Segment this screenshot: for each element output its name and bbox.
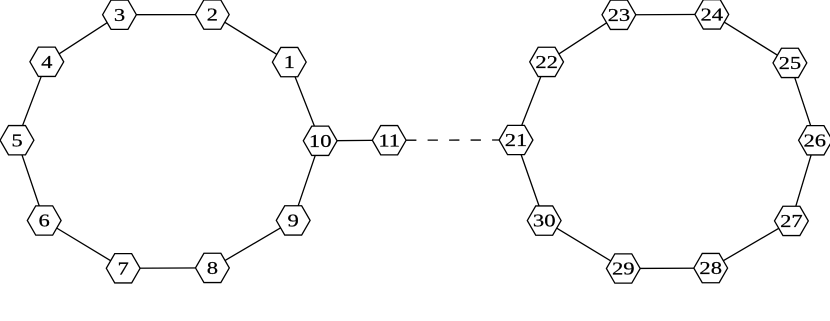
svg-text:27: 27 bbox=[780, 212, 803, 231]
svg-text:22: 22 bbox=[535, 53, 558, 72]
svg-text:8: 8 bbox=[207, 259, 218, 278]
wire: edge 29-30 bbox=[544, 221, 623, 269]
node 9 bbox=[276, 206, 310, 235]
node 25 bbox=[773, 48, 807, 77]
node 30 bbox=[527, 206, 561, 235]
node 24 bbox=[695, 0, 729, 29]
svg-text:11: 11 bbox=[378, 131, 400, 150]
svg-text:3: 3 bbox=[114, 6, 125, 25]
node 4 bbox=[30, 47, 64, 76]
node 29 bbox=[606, 254, 640, 283]
wire: edge 26-27 bbox=[791, 140, 815, 221]
svg-text:29: 29 bbox=[612, 260, 635, 279]
wire: edge 4-5 bbox=[17, 62, 47, 140]
wire: edge 25-26 bbox=[790, 63, 816, 140]
node 3 bbox=[103, 0, 137, 29]
wire: edge 6-7 bbox=[44, 221, 123, 269]
node 11 bbox=[372, 126, 406, 155]
wire: edge 3-4 bbox=[47, 15, 120, 62]
wire: edge 21-22 bbox=[516, 62, 547, 140]
wire: edge 2-3 bbox=[120, 14, 213, 16]
wire: dashed edge 11-21 bbox=[406, 139, 499, 141]
node 6 bbox=[27, 206, 61, 235]
svg-text:21: 21 bbox=[505, 131, 528, 150]
svg-text:9: 9 bbox=[288, 212, 299, 231]
svg-text:2: 2 bbox=[207, 6, 218, 25]
svg-text:25: 25 bbox=[779, 54, 802, 73]
wire: edge 5-6 bbox=[17, 140, 44, 220]
wire: edge 7-8 bbox=[123, 267, 212, 269]
svg-text:23: 23 bbox=[608, 6, 631, 25]
svg-text:24: 24 bbox=[701, 6, 724, 25]
wire: edge 23-24 bbox=[619, 13, 712, 15]
svg-text:7: 7 bbox=[118, 260, 129, 279]
wire: edge 27-28 bbox=[711, 221, 792, 268]
node 1 bbox=[272, 47, 306, 76]
wire: edge 28-29 bbox=[623, 267, 710, 269]
wire: edge 22-23 bbox=[547, 15, 619, 62]
node 22 bbox=[530, 47, 564, 76]
node 21 bbox=[499, 125, 533, 154]
wire: edge 10-1 bbox=[289, 62, 320, 141]
node 10 bbox=[303, 126, 337, 155]
svg-text:30: 30 bbox=[533, 212, 556, 231]
node 7 bbox=[106, 254, 140, 283]
node 8 bbox=[196, 253, 230, 282]
svg-text:6: 6 bbox=[39, 212, 50, 231]
svg-text:4: 4 bbox=[41, 53, 52, 72]
node 26 bbox=[799, 126, 830, 155]
svg-text:10: 10 bbox=[309, 132, 332, 151]
svg-text:26: 26 bbox=[804, 132, 827, 151]
node 2 bbox=[195, 0, 229, 29]
node 5 bbox=[0, 126, 34, 155]
svg-text:28: 28 bbox=[699, 259, 722, 278]
node 28 bbox=[694, 253, 728, 282]
wire: edge 30-21 bbox=[516, 140, 544, 221]
svg-text:1: 1 bbox=[284, 53, 295, 72]
wire: edge 10-11 bbox=[320, 139, 389, 142]
node 23 bbox=[602, 0, 636, 29]
svg-text:5: 5 bbox=[11, 131, 22, 150]
wire: edge 9-10 bbox=[293, 141, 320, 221]
node 27 bbox=[775, 206, 809, 235]
wire: edge 24-25 bbox=[712, 14, 790, 63]
wire: edge 1-2 bbox=[212, 15, 289, 63]
wire: edge 8-9 bbox=[212, 220, 293, 268]
